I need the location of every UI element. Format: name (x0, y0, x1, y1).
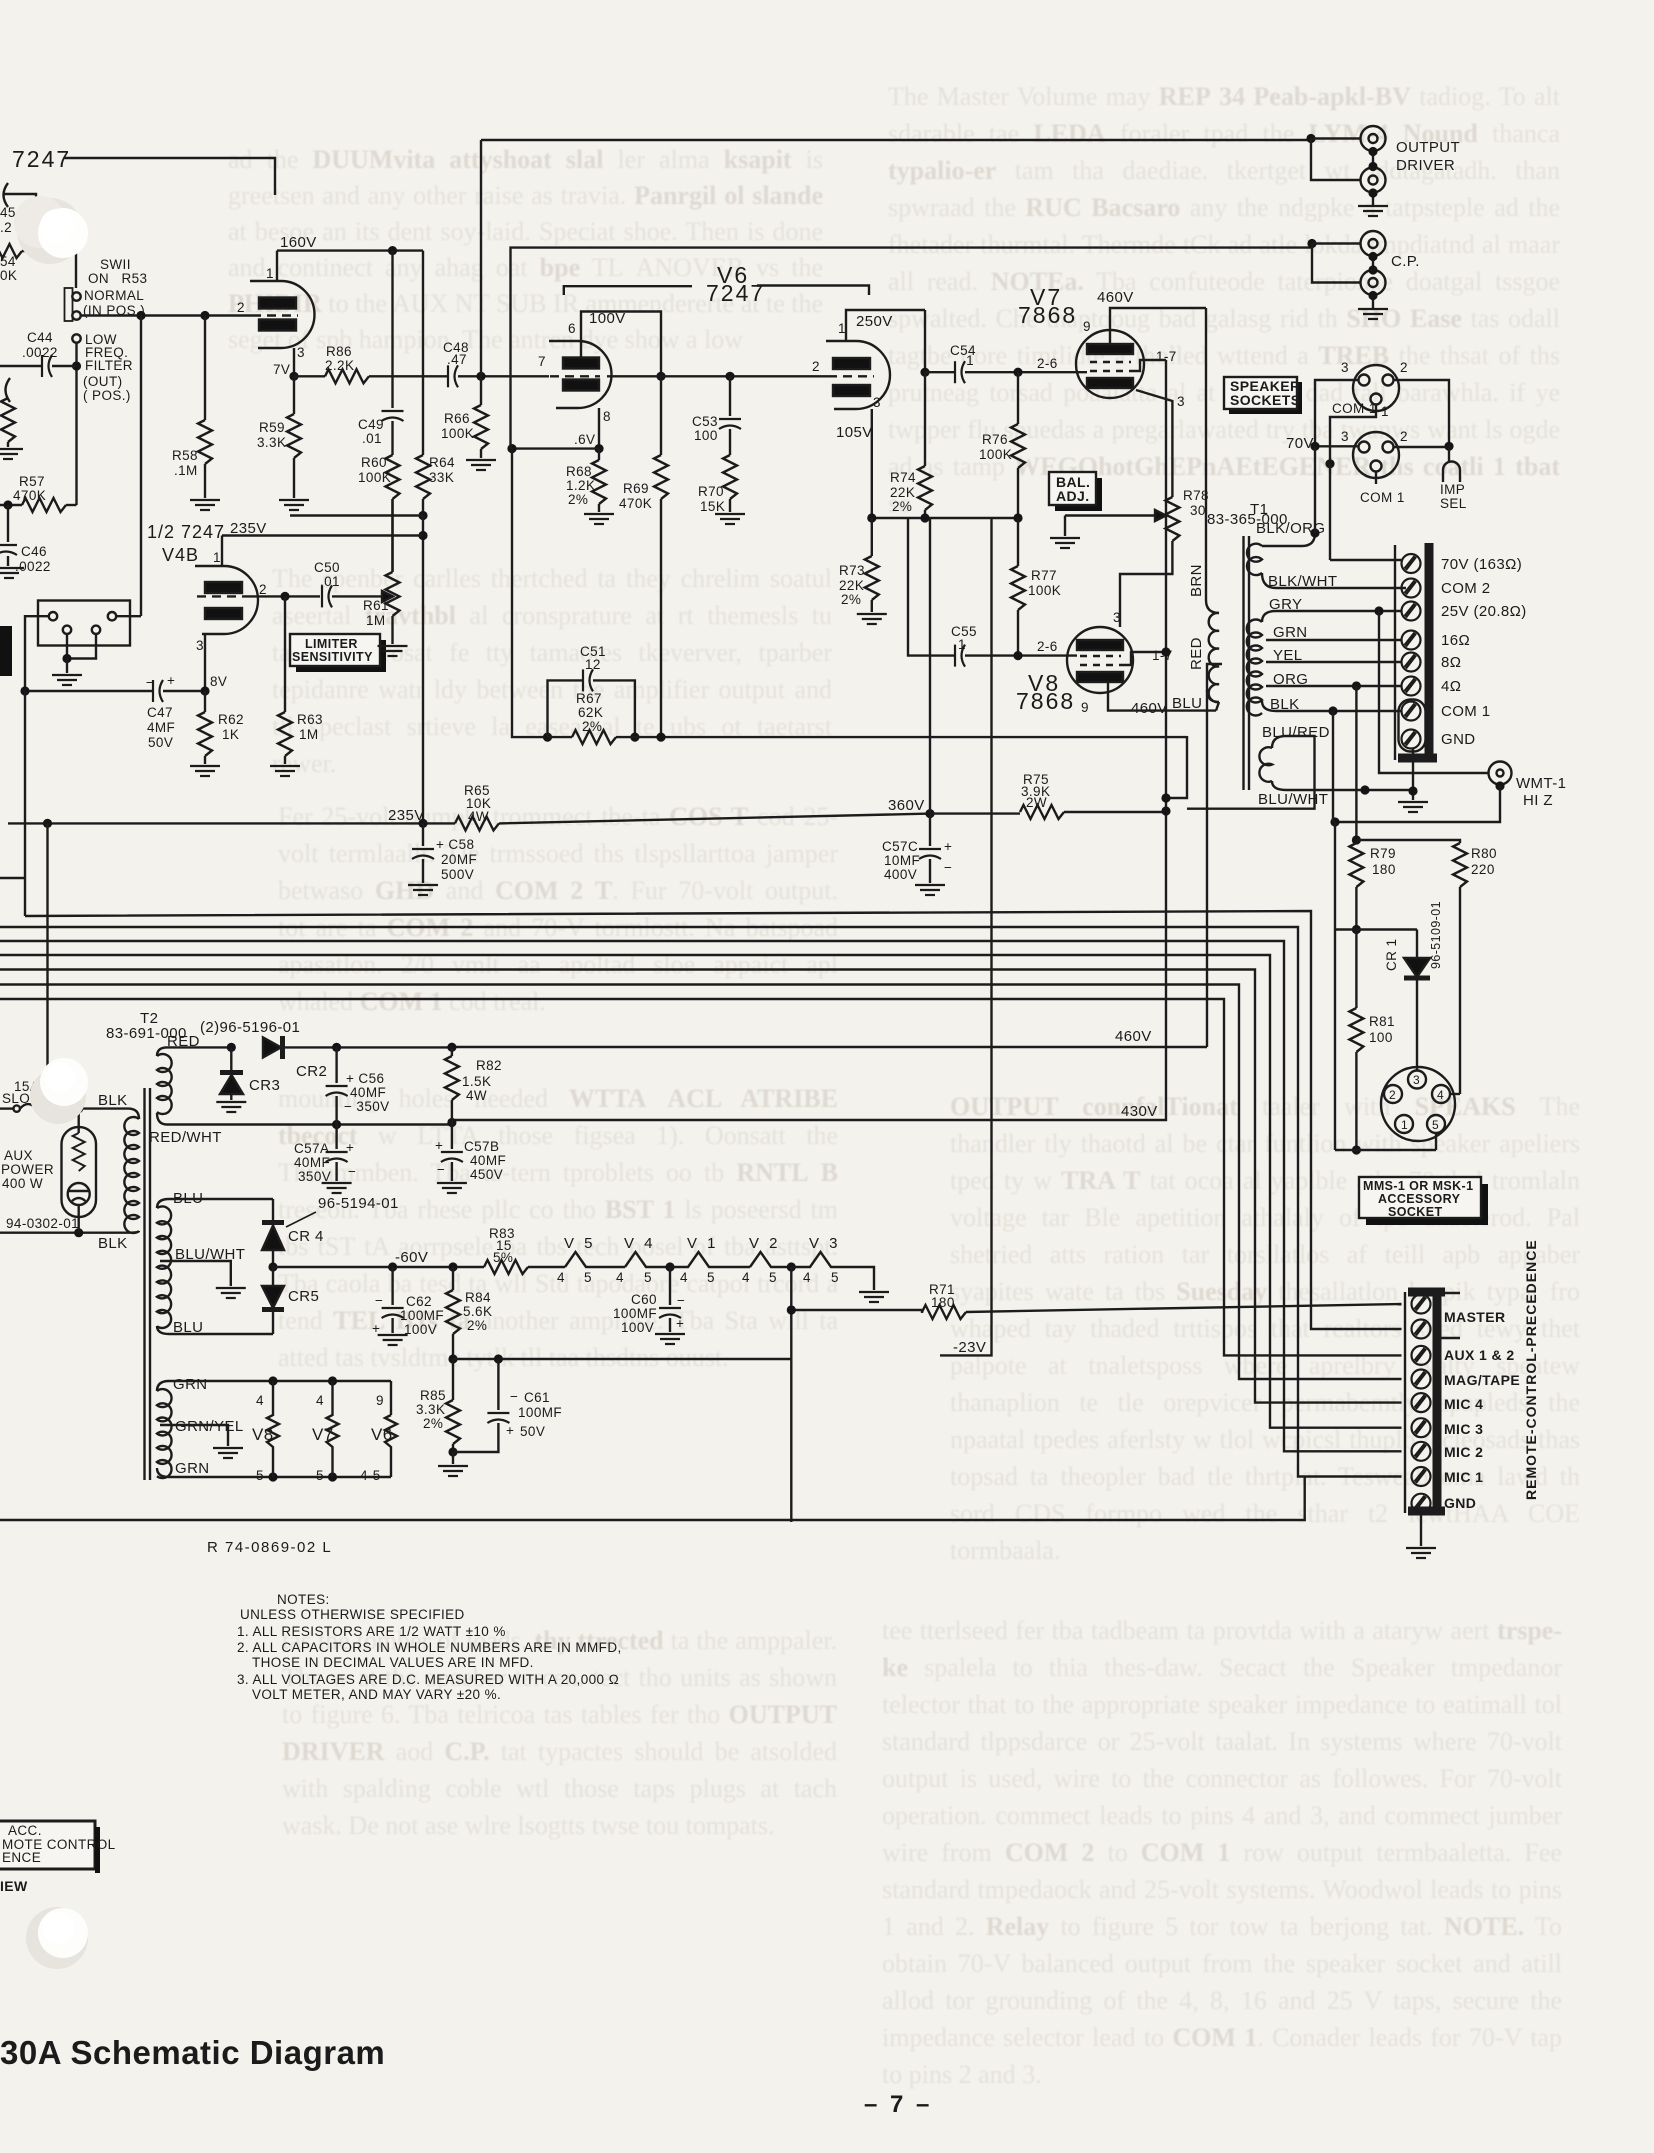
svg-text:COM 1: COM 1 (1441, 703, 1491, 720)
svg-text:.0022: .0022 (15, 559, 51, 574)
terminal MIC 3 (1412, 1418, 1431, 1437)
svg-text:8V: 8V (210, 674, 227, 689)
node plate feed on signal line (656, 372, 665, 381)
V4B plate line (222, 534, 423, 536)
svg-text:V4B: V4B (162, 545, 199, 565)
svg-text:+ C58: + C58 (436, 837, 474, 852)
ground under C57A (322, 1183, 352, 1193)
svg-text:VOLT METER, AND MAY VARY ±20 %: VOLT METER, AND MAY VARY ±20 %. (252, 1687, 501, 1702)
svg-text:COM 1: COM 1 (1332, 401, 1377, 416)
switch box right contact wire from V4B grid drop (116, 615, 141, 617)
svg-text:MAG/TAPE: MAG/TAPE (1444, 1372, 1520, 1388)
svg-text:R68: R68 (566, 464, 592, 479)
svg-text:2: 2 (259, 582, 267, 597)
svg-text:-60V: -60V (395, 1249, 428, 1266)
sleeve link (1372, 256, 1374, 270)
wire: long drop to limiter switch box (140, 316, 142, 617)
capacitor C45 (cut at page edge) (3, 183, 36, 214)
svg-text:2%: 2% (892, 499, 912, 514)
svg-text:GRN: GRN (1273, 624, 1308, 641)
svg-text:V 2: V 2 (749, 1235, 781, 1252)
ground under R68 (584, 514, 614, 524)
WMT sleeve return (1335, 786, 1500, 822)
svg-text:ACC.: ACC. (8, 1823, 42, 1838)
svg-text:100MF: 100MF (400, 1308, 444, 1323)
V4B grid wire (244, 595, 320, 597)
wire bus aux (0, 999, 1402, 1355)
svg-text:SOCKET: SOCKET (1388, 1205, 1443, 1219)
node R64 bottom (418, 511, 427, 520)
svg-text:BLK: BLK (98, 1092, 128, 1109)
ground under R59 (279, 500, 309, 510)
svg-text:GND: GND (1441, 731, 1476, 748)
switch contact LOW FREQ FILTER (72, 334, 80, 342)
svg-text:NORMAL: NORMAL (84, 288, 144, 303)
pentode V7 7868 (1076, 330, 1144, 398)
svg-text:4Ω: 4Ω (1441, 678, 1461, 695)
punch hole (14, 196, 88, 264)
V8 grid riser (929, 518, 931, 814)
svg-text:40MF: 40MF (470, 1153, 506, 1168)
svg-text:C44: C44 (27, 330, 53, 345)
svg-text:100K: 100K (1028, 583, 1061, 598)
ground under C62 (378, 1335, 408, 1345)
svg-text:(OUT): (OUT) (83, 374, 123, 389)
resistor R55 (cut at page edge) (6, 378, 11, 402)
svg-text:.1M: .1M (174, 463, 198, 478)
callout box LIMITER SENSITIVITY (296, 640, 386, 672)
ground after V3 (859, 1292, 889, 1302)
svg-text:15K: 15K (700, 499, 725, 514)
svg-text:4W: 4W (466, 1088, 487, 1103)
svg-text:R85: R85 (420, 1388, 446, 1403)
strip body (1404, 1292, 1406, 1513)
svg-text:500V: 500V (441, 867, 474, 882)
svg-text:7247: 7247 (706, 280, 765, 306)
node: junction to R58 (200, 311, 209, 320)
svg-text:1K: 1K (222, 727, 239, 742)
ground under R62 (190, 766, 220, 776)
svg-text:470K: 470K (619, 496, 652, 511)
node heater / R71 drop (787, 1262, 796, 1271)
node output driver tee (1306, 134, 1315, 143)
svg-text:100MF: 100MF (613, 1306, 657, 1321)
svg-text:16Ω: 16Ω (1441, 632, 1470, 649)
svg-text:R76: R76 (982, 432, 1008, 447)
svg-text:ADJ.: ADJ. (1056, 488, 1090, 504)
svg-text:3. ALL VOLTAGES ARE D.C. MEASU: 3. ALL VOLTAGES ARE D.C. MEASURED WITH A… (237, 1672, 619, 1687)
svg-text:1: 1 (213, 550, 221, 565)
svg-text:5: 5 (1432, 1118, 1439, 1132)
svg-text:CR3: CR3 (249, 1077, 280, 1094)
wire bus mag/tape (0, 985, 1402, 1380)
node C55 / R77 bottom (1013, 651, 1022, 660)
wire R64 node down to 235V rail (422, 516, 424, 824)
svg-text:450V: 450V (470, 1167, 503, 1182)
node 160V / C49 (388, 246, 397, 255)
callout box MMS-1 OR MSK-1 ACCESSORY SOCKET (1366, 1184, 1488, 1225)
BLU lead to V8 plate (1216, 702, 1219, 711)
pentode V8 7868 (1067, 627, 1133, 693)
ground under CR3 (216, 1102, 246, 1112)
svg-text:220: 220 (1471, 862, 1495, 877)
phono jack C.P. lower (1361, 270, 1386, 295)
svg-text:70V: 70V (1286, 435, 1314, 452)
speaker socket lower (1353, 432, 1399, 478)
capacitor C46 .0022 (7, 505, 9, 542)
svg-text:V 1: V 1 (687, 1235, 719, 1252)
svg-text:R86: R86 (326, 344, 352, 359)
svg-text:430V: 430V (1121, 1103, 1158, 1120)
svg-text:5: 5 (831, 1270, 839, 1285)
node: junction to V4B grid line (136, 311, 145, 320)
svg-text:MIC 3: MIC 3 (1444, 1421, 1483, 1437)
svg-text:3: 3 (297, 345, 305, 360)
bias bus (872, 517, 1018, 519)
svg-text:.2: .2 (0, 220, 12, 235)
svg-text:4: 4 (803, 1270, 811, 1285)
svg-text:+: + (167, 673, 175, 688)
svg-text:2%: 2% (841, 592, 861, 607)
svg-text:250V: 250V (856, 313, 893, 330)
svg-text:1: 1 (1401, 1118, 1408, 1132)
svg-text:SEL: SEL (1440, 496, 1467, 511)
svg-text:1: 1 (266, 266, 274, 281)
svg-text:COM 2: COM 2 (1441, 580, 1491, 597)
svg-text:R73: R73 (839, 563, 865, 578)
svg-text:MIC 2: MIC 2 (1444, 1444, 1483, 1460)
svg-text:5: 5 (584, 1270, 592, 1285)
strap joining COM1 and GND (1399, 700, 1426, 752)
svg-text:7V: 7V (273, 362, 290, 377)
svg-text:4: 4 (680, 1270, 688, 1285)
svg-text:.47: .47 (447, 352, 467, 367)
svg-text:MASTER: MASTER (1444, 1309, 1506, 1325)
wire bus mic2 (0, 941, 1402, 1451)
svg-text:105V: 105V (836, 424, 873, 441)
ground under R85 (438, 1466, 468, 1476)
svg-text:−: − (510, 1389, 518, 1404)
node C44 junction (72, 361, 81, 370)
svg-text:7868: 7868 (1018, 302, 1077, 328)
svg-text:2%: 2% (467, 1318, 487, 1333)
svg-text:R 74-0869-02 L: R 74-0869-02 L (207, 1539, 332, 1556)
switch box left contact wire (25, 616, 49, 691)
svg-text:4MF: 4MF (147, 720, 175, 735)
svg-text:100K: 100K (441, 426, 474, 441)
phono jack C.P. upper (1361, 231, 1386, 256)
svg-text:IMP: IMP (1440, 482, 1465, 497)
svg-text:400V: 400V (884, 867, 917, 882)
svg-text:4-5: 4-5 (360, 1468, 381, 1483)
svg-text:0K: 0K (0, 268, 17, 283)
ground under C.P. (1372, 295, 1374, 308)
ground at BLU/WHT (216, 1288, 246, 1298)
svg-text:3: 3 (1177, 394, 1185, 409)
svg-text:+: + (372, 1321, 380, 1336)
svg-text:CR5: CR5 (288, 1288, 319, 1305)
svg-text:C60: C60 (631, 1292, 657, 1307)
socket upper pin 3 wire (1315, 380, 1359, 446)
svg-text:MIC 4: MIC 4 (1444, 1396, 1483, 1412)
AC feed drop (43, 819, 52, 828)
svg-text:−: − (944, 860, 952, 875)
wire: C.P. line from feedback vertical (511, 248, 1313, 449)
label box at page edge (0, 626, 12, 676)
svg-text:33K: 33K (429, 470, 454, 485)
svg-text:R67: R67 (576, 691, 602, 706)
svg-text:−: − (348, 1164, 356, 1179)
svg-text:−: − (677, 1293, 685, 1308)
svg-text:R62: R62 (218, 712, 244, 727)
svg-text:R57: R57 (19, 474, 45, 489)
svg-text:4: 4 (1437, 1088, 1444, 1102)
svg-text:+: + (435, 1138, 443, 1153)
svg-text:R63: R63 (297, 712, 323, 727)
svg-text:HI Z: HI Z (1523, 792, 1553, 809)
terminal MIC 1 (1412, 1467, 1431, 1486)
svg-text:7: 7 (538, 354, 546, 369)
terminal 4 ohm (1402, 677, 1421, 696)
svg-text:2-6: 2-6 (1037, 639, 1058, 654)
svg-text:R69: R69 (623, 481, 649, 496)
T2 primary winding (124, 1117, 139, 1233)
svg-text:C57A: C57A (294, 1141, 329, 1156)
wire: vertical from top line to R66 (480, 140, 482, 376)
wire signal line to C53 and V6B grid (546, 375, 828, 377)
svg-text:C49: C49 (358, 417, 384, 432)
socket pin4 wire to R80 (1450, 1093, 1460, 1095)
svg-text:50V: 50V (520, 1424, 545, 1439)
svg-text:R77: R77 (1031, 568, 1057, 583)
ground under C57B (437, 1183, 467, 1193)
wire at 515 (290, 514, 423, 516)
wire bus mic3 (0, 955, 1402, 1428)
terminal MIC 2 (1412, 1442, 1431, 1461)
svg-text:9: 9 (1081, 700, 1089, 715)
terminal 16 ohm (1402, 631, 1421, 650)
wire 25V tap to WMT jack (1379, 611, 1489, 773)
svg-text:MMS-1 OR MSK-1: MMS-1 OR MSK-1 (1363, 1179, 1473, 1193)
svg-text:− 350V: − 350V (344, 1099, 390, 1114)
svg-text:54: 54 (0, 254, 16, 269)
svg-text:2. ALL CAPACITORS IN WHOLE NUM: 2. ALL CAPACITORS IN WHOLE NUMBERS ARE I… (237, 1640, 622, 1655)
svg-text:160V: 160V (280, 234, 317, 251)
svg-text:100V: 100V (404, 1322, 437, 1337)
wire bus mic4 (0, 970, 1402, 1403)
svg-text:4: 4 (742, 1270, 750, 1285)
svg-text:GRN: GRN (175, 1460, 210, 1477)
ground under R70 (715, 514, 745, 524)
svg-text:R70: R70 (698, 484, 724, 499)
svg-text:4: 4 (557, 1270, 565, 1285)
node V4B plate line (418, 531, 427, 540)
svg-text:5: 5 (707, 1270, 715, 1285)
node heater / C60 (665, 1262, 674, 1271)
punch hole lower-middle (30, 1058, 88, 1124)
svg-text:460V: 460V (1115, 1028, 1152, 1045)
bottom bus of accessory socket (1335, 1149, 1436, 1151)
terminal COM 2 (1402, 579, 1421, 598)
svg-text:R79: R79 (1370, 846, 1396, 861)
wire bottom shield bus (0, 1477, 1305, 1521)
terminal MASTER lower (1412, 1320, 1431, 1339)
svg-text:THOSE IN DECIMAL VALUES ARE IN: THOSE IN DECIMAL VALUES ARE IN MFD. (252, 1655, 534, 1670)
svg-text:(2)96-5196-01: (2)96-5196-01 (200, 1019, 300, 1036)
triode V6A (1/2 7247) (549, 341, 612, 408)
svg-text:R61: R61 (363, 598, 389, 613)
svg-text:R74: R74 (890, 470, 916, 485)
svg-text:-23V: -23V (953, 1339, 986, 1356)
ground under C58 (408, 885, 438, 895)
svg-text:– 7 –: – 7 – (864, 2091, 932, 2118)
svg-text:40MF: 40MF (350, 1085, 386, 1100)
speaker socket upper (1353, 365, 1399, 411)
phono jack OUTPUT DRIVER upper (1361, 126, 1386, 151)
callout box SPEAKER SOCKETS (1229, 382, 1302, 414)
svg-text:50V: 50V (148, 735, 173, 750)
ground under output driver (1372, 193, 1374, 206)
svg-text:1: 1 (838, 321, 846, 336)
svg-text:10MF: 10MF (884, 853, 920, 868)
svg-text:2%: 2% (423, 1416, 443, 1431)
node C53 (725, 372, 734, 381)
svg-text:R82: R82 (476, 1058, 502, 1073)
svg-text:FILTER: FILTER (85, 358, 133, 373)
svg-text:IEW: IEW (0, 1878, 28, 1894)
node -60V (268, 1262, 277, 1271)
svg-text:OUTPUT: OUTPUT (1396, 139, 1460, 156)
svg-text:+ C56: + C56 (346, 1071, 384, 1086)
jack WMT-1 HI Z (1489, 762, 1512, 785)
svg-text:.0022: .0022 (22, 345, 58, 360)
ground under C46 (0, 568, 24, 578)
svg-text:R59: R59 (259, 420, 285, 435)
heater supply line from R84/R85 (453, 1358, 791, 1360)
wire bus mic1 (0, 927, 1402, 1477)
terminal AUX 1 & 2 (1412, 1346, 1431, 1365)
svg-text:C53: C53 (692, 414, 718, 429)
node cathode junction (289, 372, 298, 381)
svg-text:25V (20.8Ω): 25V (20.8Ω) (1441, 603, 1527, 620)
wiper arrow into R61 (382, 591, 393, 602)
svg-text:100V: 100V (621, 1320, 654, 1335)
ground under R66 (466, 460, 496, 470)
svg-text:2: 2 (812, 359, 820, 374)
phono jack OUTPUT DRIVER lower (1361, 168, 1386, 193)
svg-text:22K: 22K (839, 578, 864, 593)
svg-text:5: 5 (644, 1270, 652, 1285)
svg-text:96-5109-01: 96-5109-01 (1429, 901, 1443, 969)
GND terminal to chassis ground (1412, 748, 1414, 800)
svg-text:22K: 22K (890, 485, 915, 500)
svg-text:R64: R64 (429, 455, 455, 470)
ground under R55 (0, 449, 23, 459)
svg-text:3.3K: 3.3K (257, 435, 286, 450)
svg-text:BLK/WHT: BLK/WHT (1268, 573, 1337, 590)
svg-text:RED/WHT: RED/WHT (149, 1129, 222, 1146)
svg-text:C47: C47 (147, 705, 173, 720)
svg-text:180: 180 (1372, 862, 1396, 877)
ground under R58 (190, 500, 220, 510)
terminal 25V (1402, 602, 1421, 621)
svg-text:3: 3 (1113, 610, 1121, 625)
triode V6B (1/2 7247) (826, 341, 890, 409)
svg-text:4: 4 (256, 1393, 264, 1408)
svg-text:POWER: POWER (1, 1162, 54, 1177)
svg-text:C50: C50 (314, 560, 340, 575)
svg-text:7247: 7247 (12, 146, 71, 172)
svg-text:100: 100 (694, 428, 718, 443)
T1 core (1244, 536, 1250, 790)
wire R78 to V8 cathode (1120, 541, 1172, 627)
svg-text:4: 4 (616, 1270, 624, 1285)
COM feedback rail (1333, 711, 1335, 1150)
svg-text:V 5: V 5 (564, 1235, 596, 1252)
svg-text:SENSITIVITY: SENSITIVITY (292, 650, 373, 664)
svg-text:5: 5 (316, 1468, 324, 1483)
svg-text:BLK: BLK (98, 1235, 128, 1252)
svg-text:LIMITER: LIMITER (305, 637, 358, 651)
balance adjust callout box (1055, 478, 1102, 511)
T2 primary top lead (79, 1109, 139, 1119)
svg-text:45: 45 (0, 205, 16, 220)
terminal MIC 4 (1412, 1393, 1431, 1412)
svg-text:ON R53: ON R53 (88, 271, 147, 286)
svg-text:400 W: 400 W (2, 1176, 43, 1191)
svg-text:V 4: V 4 (624, 1235, 656, 1252)
svg-text:( POS.): ( POS.) (83, 388, 131, 403)
svg-text:9: 9 (376, 1393, 384, 1408)
svg-text:BLU/RED: BLU/RED (1262, 724, 1330, 741)
node C54 right / R76 (1013, 368, 1022, 377)
svg-text:NOTES:: NOTES: (277, 1592, 330, 1607)
svg-text:2%: 2% (568, 492, 588, 507)
svg-text:SOCKETS: SOCKETS (1230, 392, 1300, 408)
bleed-through text blocks (back of page) (228, 142, 823, 332)
svg-text:R60: R60 (361, 455, 387, 470)
ground under R63 (270, 766, 300, 776)
svg-text:R66: R66 (444, 411, 470, 426)
ground under R73 (857, 614, 887, 624)
node cathode junction (594, 444, 603, 453)
T2 core (145, 1088, 151, 1480)
svg-text:ENCE: ENCE (2, 1850, 41, 1865)
wire heater node down to R71 and shield bus (790, 1267, 792, 1522)
svg-text:R80: R80 (1471, 846, 1497, 861)
node R57 left (3, 500, 12, 509)
svg-text:460V: 460V (1131, 700, 1168, 717)
svg-text:2-6: 2-6 (1037, 356, 1058, 371)
svg-text:2: 2 (237, 300, 245, 315)
punch hole bottom (26, 1907, 88, 1969)
svg-text:REMOTE-CONTROL-PRECEDENCE: REMOTE-CONTROL-PRECEDENCE (1523, 1239, 1539, 1500)
svg-text:2: 2 (1389, 1088, 1396, 1102)
svg-text:7868: 7868 (1016, 688, 1075, 714)
svg-text:GND: GND (1444, 1495, 1476, 1511)
svg-text:20MF: 20MF (441, 852, 477, 867)
svg-text:+: + (944, 839, 952, 854)
svg-text:1: 1 (1381, 404, 1389, 419)
ground under C57C (915, 885, 945, 895)
svg-text:C57B: C57B (464, 1139, 499, 1154)
socket upper pin 1 wire (1330, 405, 1376, 464)
terminal GND (remote) (1412, 1494, 1431, 1513)
svg-text:360V: 360V (888, 797, 925, 814)
svg-text:6: 6 (568, 321, 576, 336)
svg-text:1/2 7247: 1/2 7247 (147, 522, 225, 542)
socket lower pin1 stub (1375, 472, 1377, 485)
